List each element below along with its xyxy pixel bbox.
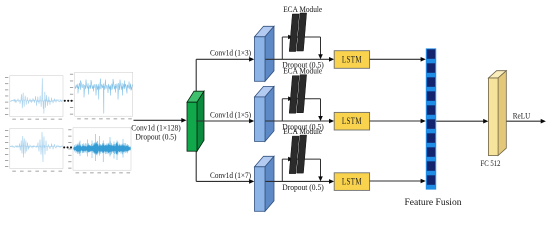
signal plot P3 x-axis tick labels <box>12 170 62 173</box>
signal plot P3 y-axis tick labels <box>5 130 8 167</box>
conv box branch1 blue <box>255 26 275 37</box>
signal plot P1 x-axis tick labels <box>12 118 62 121</box>
conv box branch3 blue <box>255 156 275 167</box>
wire branch 2 conv box to LSTM (dropout path) <box>266 120 330 122</box>
wire feature fusion to FC <box>436 120 484 122</box>
svg-text:Dropout (0.5): Dropout (0.5) <box>282 182 324 192</box>
ellipsis dots row1 <box>64 100 73 102</box>
wire branch 2 ECA bypass down with arrow <box>320 99 322 117</box>
svg-text:Conv1d (1×7): Conv1d (1×7) <box>210 170 251 180</box>
wire branch 3 ECA bypass up-left <box>281 159 283 181</box>
wire branch 1 conv box to LSTM (dropout path) <box>266 58 330 60</box>
ECA module branch 2 slab B <box>297 75 307 113</box>
signal plot P3 frame <box>10 129 63 169</box>
arrowhead branch 2 into ECA <box>288 96 293 101</box>
signal plot P4 x-axis tick labels <box>76 171 131 174</box>
LSTM box branch 2 <box>334 112 369 130</box>
svg-text:Conv1d (1×3): Conv1d (1×3) <box>210 48 251 58</box>
ECA module branch 2 slab A <box>289 76 299 114</box>
signal plot P4 spikes <box>75 134 131 162</box>
wire FC output ReLU arrow <box>507 120 542 122</box>
svg-text:LSTM: LSTM <box>342 116 362 126</box>
signal plot P2 y-axis tick labels <box>70 74 73 115</box>
wire branch 1 LSTM to feature fusion <box>370 58 422 60</box>
wire branch 1 from splitter to conv box <box>196 58 250 60</box>
signal plot P2 waveform <box>75 79 132 114</box>
wire branch 2 from splitter to conv box <box>196 120 250 122</box>
wire input arrow to Conv1d(1x128) <box>134 119 182 121</box>
conv box branch2 blue <box>255 86 275 97</box>
signal plot P4 frame <box>73 128 131 170</box>
svg-text:Dropout (0.5): Dropout (0.5) <box>136 132 177 142</box>
svg-text:ReLU: ReLU <box>513 112 531 121</box>
ECA module branch 3 slab A <box>289 136 299 174</box>
LSTM box branch 3 <box>334 173 369 191</box>
svg-text:Feature Fusion: Feature Fusion <box>405 197 463 207</box>
svg-text:ECA Module: ECA Module <box>283 66 322 76</box>
signal plot P4 y-axis tick labels <box>68 129 71 168</box>
svg-text:ECA Module: ECA Module <box>283 4 322 14</box>
signal plot P1 waveform <box>10 78 62 113</box>
signal plot P1 frame <box>10 76 63 117</box>
ECA module branch 1 slab A <box>289 14 299 52</box>
FC 512 box <box>488 71 506 78</box>
ECA module branch 1 slab B <box>297 13 307 51</box>
wire branch 1 ECA bypass down with arrow <box>320 37 322 55</box>
LSTM box branch 1 <box>334 51 369 69</box>
svg-text:LSTM: LSTM <box>342 177 362 187</box>
wire branch 1 ECA bypass top <box>282 36 320 38</box>
wire vertical splitter <box>195 59 197 181</box>
svg-text:FC 512: FC 512 <box>481 159 501 168</box>
wire branch 3 ECA bypass top <box>282 158 320 160</box>
arrowhead branch 3 into ECA <box>288 157 293 162</box>
signal plot P2 frame <box>75 72 133 116</box>
wire branch 3 LSTM to feature fusion <box>370 180 422 182</box>
signal plot P3 waveform <box>10 132 62 162</box>
wire branch 3 from splitter to conv box <box>196 180 250 182</box>
wire branch 3 ECA bypass down with arrow <box>320 159 322 177</box>
wire branch 2 ECA bypass up-left <box>281 99 283 121</box>
signal plot P1 y-axis tick labels <box>5 77 8 115</box>
signal plot P4 waveform envelope <box>73 143 130 154</box>
wire branch 2 LSTM to feature fusion <box>370 120 422 122</box>
arrowhead branch 1 into ECA <box>288 35 293 40</box>
signal plot P2 x-axis tick labels <box>77 117 132 120</box>
feature fusion column cells <box>427 49 435 185</box>
svg-text:ECA Module: ECA Module <box>283 126 322 136</box>
wire branch 3 conv box to LSTM (dropout path) <box>266 180 330 182</box>
signal plot P4 waveform halo <box>73 138 130 158</box>
wire branch 2 ECA bypass top <box>282 98 320 100</box>
conv block Conv1d(1x128) green box <box>187 91 204 102</box>
feature fusion column bar <box>426 48 436 189</box>
svg-text:Conv1d (1×5): Conv1d (1×5) <box>210 109 251 119</box>
svg-text:LSTM: LSTM <box>342 55 362 65</box>
ECA module branch 3 slab B <box>297 135 307 173</box>
wire branch 1 ECA bypass up-left <box>281 37 283 59</box>
ellipsis dots row2 <box>63 146 72 148</box>
